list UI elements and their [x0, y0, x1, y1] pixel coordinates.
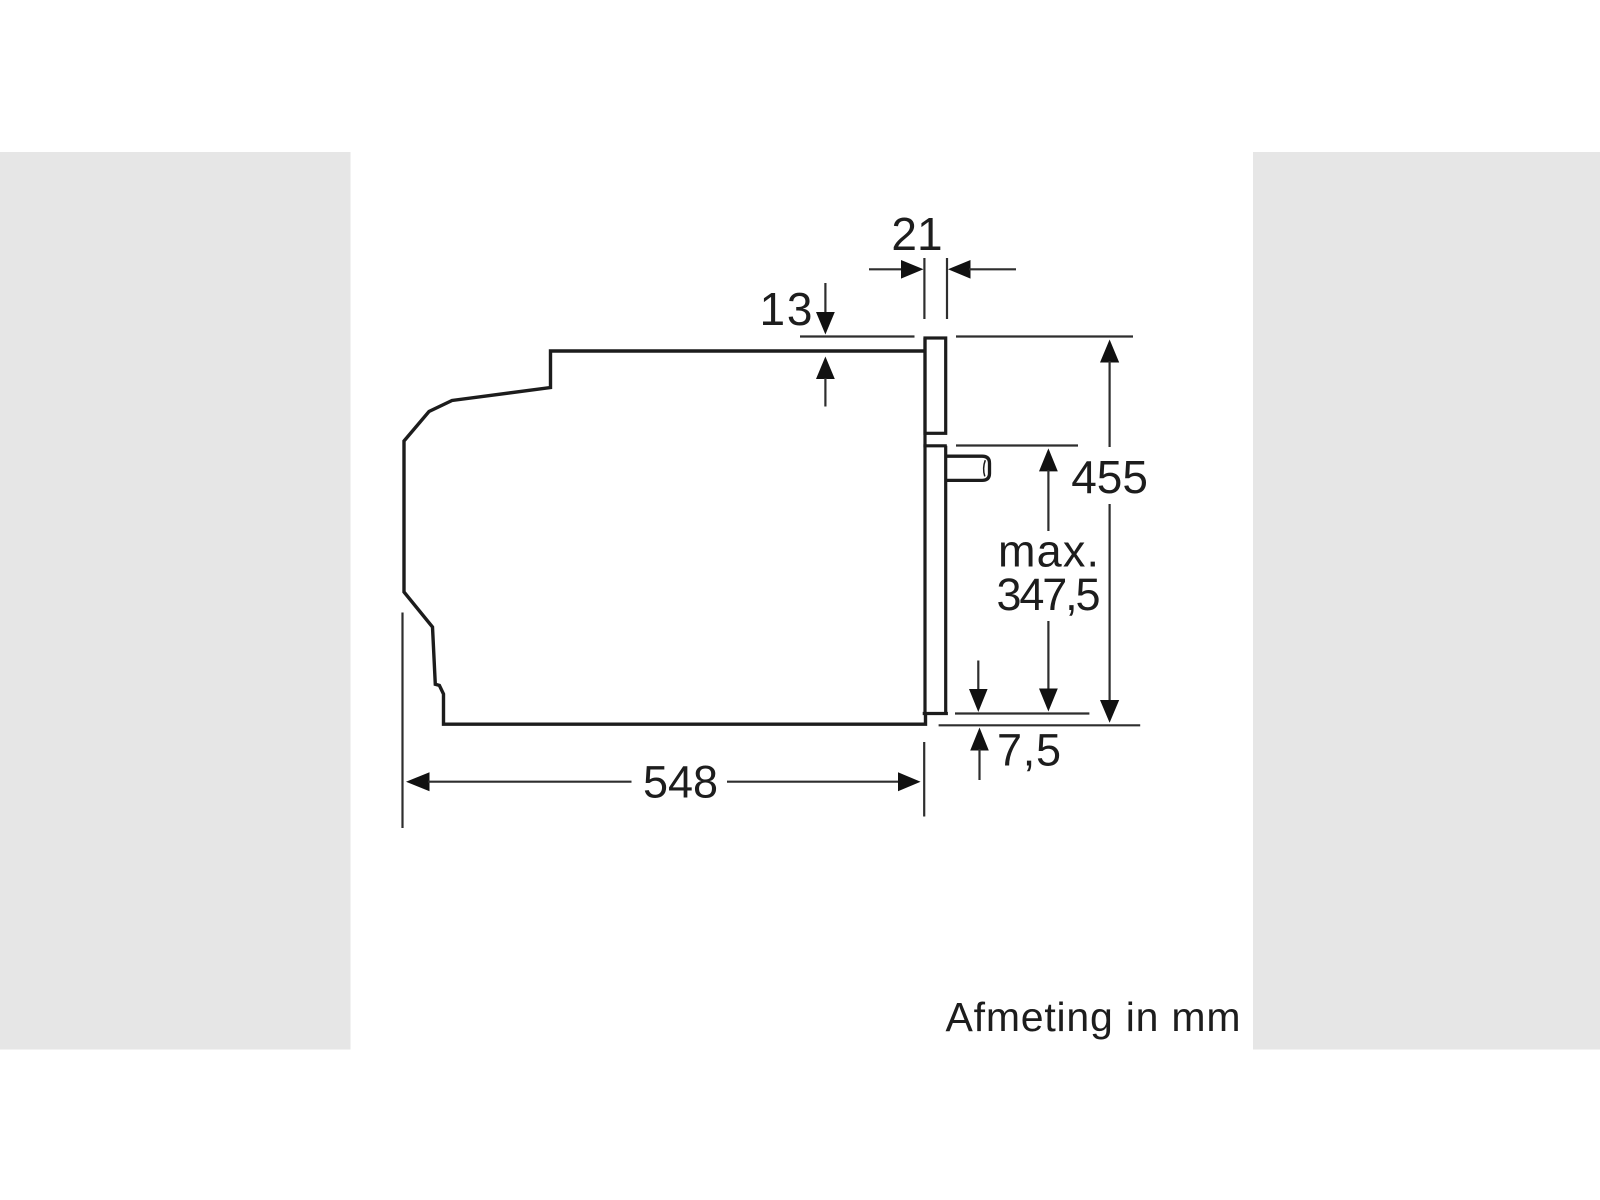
- svg-text:7,5: 7,5: [997, 725, 1061, 776]
- dim 13 down arrow: [824, 283, 826, 315]
- 548 ext line left: [401, 613, 403, 829]
- door bottom edge: [923, 712, 948, 715]
- dim 13 up arrow: [816, 357, 835, 380]
- door lower right edge: [944, 446, 947, 714]
- handle: [946, 456, 990, 480]
- dim 455 line: [1100, 340, 1119, 363]
- ext line y445 right: [956, 444, 1078, 446]
- extension line top left (y 336.5): [800, 335, 915, 337]
- dim 548 line: [406, 772, 430, 791]
- ext line oven bottom: [939, 724, 1141, 726]
- door upper rect: [925, 338, 946, 433]
- svg-text:347,5: 347,5: [997, 569, 1101, 620]
- extension line top right (y 336.5): [956, 335, 1133, 337]
- svg-text:13: 13: [760, 283, 813, 335]
- oven body outline: [404, 351, 926, 724]
- 21 ext line right: [946, 258, 948, 319]
- dim 21 left arrow: [869, 268, 903, 270]
- left gray panel: [0, 152, 351, 1050]
- svg-text:Afmeting in mm: Afmeting in mm: [946, 994, 1241, 1040]
- ext line door bottom: [955, 712, 1089, 714]
- right gray panel: [1253, 152, 1600, 1050]
- dim max347.5 line: [1039, 448, 1058, 471]
- svg-text:21: 21: [891, 208, 942, 260]
- handle inner cap line: [984, 460, 986, 476]
- svg-text:455: 455: [1071, 451, 1148, 503]
- 548 ext line right: [923, 742, 925, 817]
- dim 7.5 up arrow: [970, 728, 989, 751]
- svg-text:548: 548: [643, 756, 718, 807]
- dim 21 right arrow: [948, 260, 971, 279]
- 21 ext line left: [923, 258, 925, 319]
- dim 7.5 down arrow: [977, 661, 979, 693]
- door lower top edge: [923, 444, 946, 447]
- door left edge: [923, 338, 926, 714]
